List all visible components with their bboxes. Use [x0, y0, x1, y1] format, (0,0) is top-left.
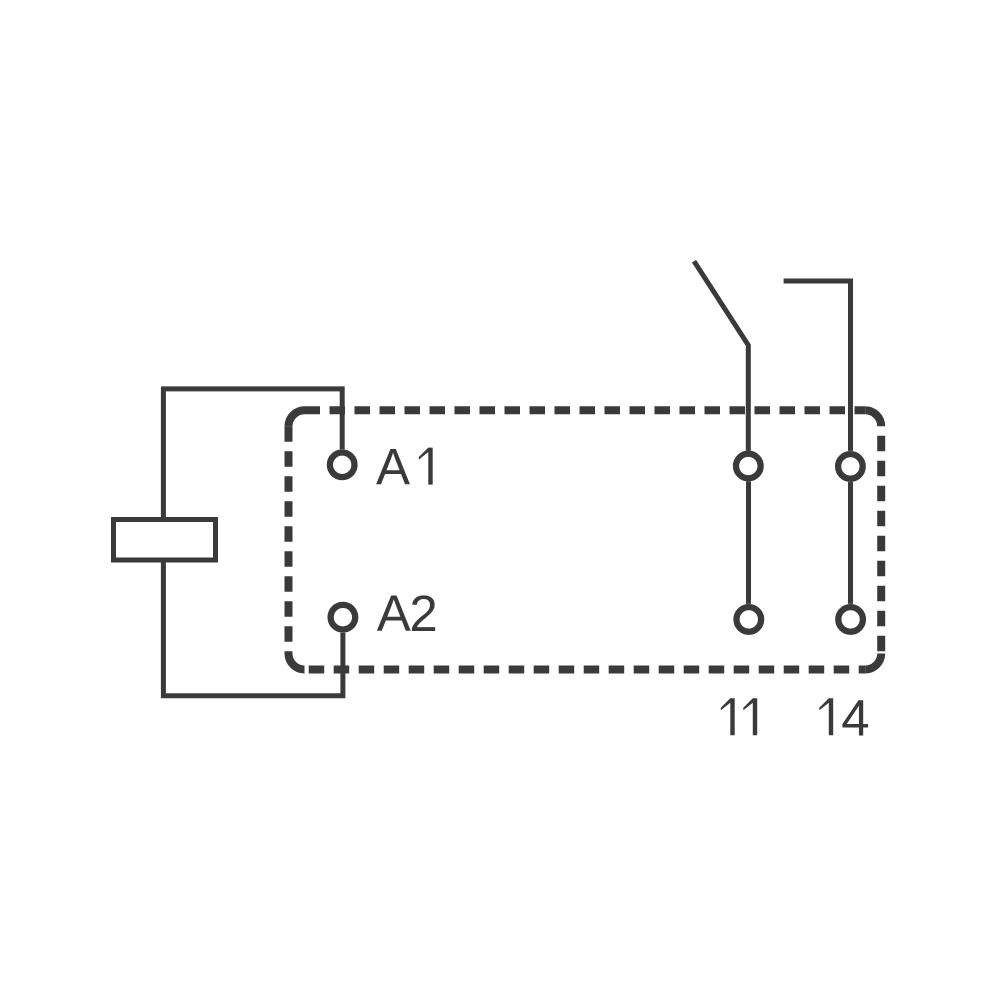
svg-text:A2: A2 [377, 585, 436, 642]
coil circuit loop wire A1-coil-A2 [163, 389, 343, 696]
contact 11 upper circle [736, 454, 761, 479]
contact 14 upper circle [838, 454, 863, 479]
fixed contact lead (pin 14) [784, 281, 851, 451]
wire between contact 11 circles [746, 482, 751, 604]
coil K1 (rectangle) [114, 520, 216, 561]
corner bottom-right [865, 654, 881, 670]
relay body outline (dashed rounded box) [289, 410, 882, 669]
contact 14 lower circle (pin 14) [838, 607, 863, 632]
terminal A2 (circle) [331, 605, 356, 630]
wire top dashed edge [305, 406, 866, 414]
contact 11 lower circle (pin 11) [737, 607, 762, 632]
wire left dashed edge [285, 426, 293, 653]
corner top-left [289, 410, 305, 426]
corner top-right [865, 410, 881, 426]
wire between contact 14 circles [848, 482, 853, 604]
svg-text:4: 4 [841, 689, 869, 746]
wire right dashed edge [877, 426, 885, 653]
switch arm (movable contact, pin 11) [694, 261, 748, 450]
corner bottom-left [289, 654, 305, 670]
terminal A1 (circle) [330, 453, 355, 478]
wire bottom dashed edge [305, 666, 866, 674]
label 11 [721, 698, 757, 735]
label A1 [376, 439, 433, 496]
label 14 [819, 689, 869, 746]
svg-text:A: A [376, 439, 410, 496]
